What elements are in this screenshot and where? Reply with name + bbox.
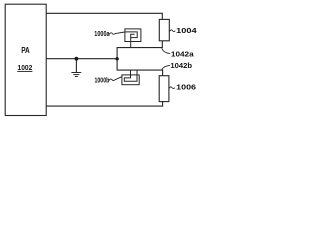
svg-text:1000a: 1000a [94,31,109,38]
svg-text:1042b: 1042b [170,61,192,70]
svg-text:PA: PA [21,46,30,55]
svg-text:1002: 1002 [18,63,33,72]
svg-text:1004: 1004 [176,26,197,35]
svg-text:1042a: 1042a [171,50,195,59]
svg-text:1000b: 1000b [95,78,110,85]
svg-text:1006: 1006 [176,83,196,92]
